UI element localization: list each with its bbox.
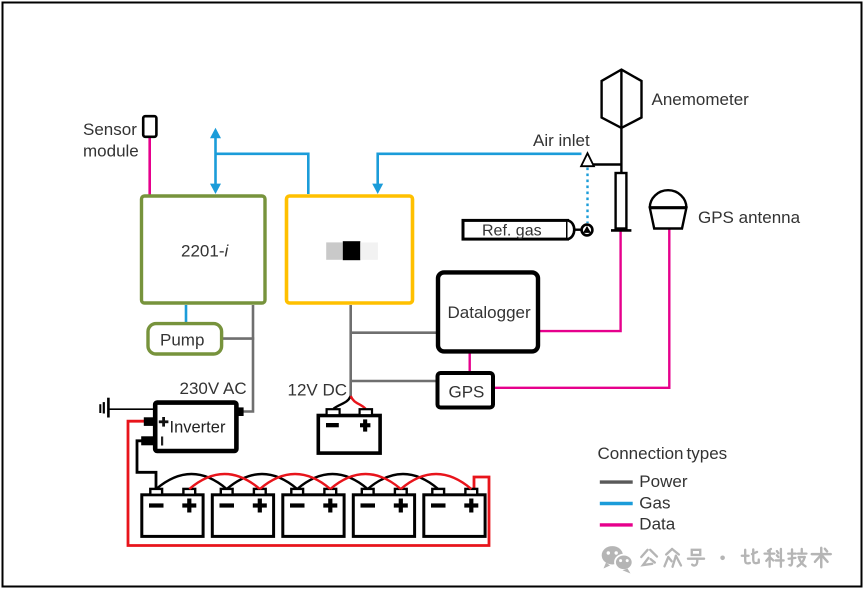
wire: blue gas line from air inlet to yellow box top with arrow <box>372 154 581 194</box>
battery B3 <box>283 495 344 537</box>
svg-text:Inverter: Inverter <box>170 419 226 437</box>
wire: red arc B1+ to B2+ <box>189 474 259 489</box>
wire: magenta data from sensor module to 2201-i <box>148 137 151 195</box>
wire: red arc B2+ to B3+ <box>260 474 331 489</box>
analyzer 2201-i box <box>142 196 266 303</box>
glyph hao <box>688 550 704 566</box>
wire: gray power branch to GPS <box>351 380 436 383</box>
wire: red power inverter to battery bank bus <box>128 421 489 545</box>
svg-text:module: module <box>83 142 139 161</box>
svg-text:Anemometer: Anemometer <box>652 90 750 109</box>
wire: black arc B4- to B5- <box>368 474 439 489</box>
svg-text:Connectiontypes: Connectiontypes <box>598 444 728 463</box>
GPS box <box>438 373 494 408</box>
battery B5 <box>424 495 485 537</box>
ground symbol <box>100 398 154 418</box>
wire: black arc B2- to B3- <box>227 474 298 489</box>
battery B1 <box>142 495 203 537</box>
legend Data <box>600 523 633 526</box>
sensor module symbol <box>143 116 156 137</box>
wire: magenta data GPS right to GPS antenna <box>495 229 670 388</box>
wire: blue gas from 2201-i bottom to Pump <box>185 305 188 323</box>
wire: red curved 12V positive lead <box>351 396 366 409</box>
glyph shu <box>812 548 831 567</box>
glyph gong <box>641 550 657 565</box>
wire: blue gas line from double-arrow to yellow box top <box>216 154 309 194</box>
svg-text:Air inlet: Air inlet <box>533 131 590 150</box>
svg-text:GPS antenna: GPS antenna <box>698 208 801 227</box>
wire: black arc B1- to B2- <box>156 474 227 489</box>
svg-text:Sensor: Sensor <box>83 120 137 139</box>
inverter box <box>141 403 243 451</box>
mast base line <box>611 229 631 232</box>
wire: gray power pump to vertical bus <box>223 337 254 340</box>
wire: gray power vertical from 2201-i bottom to inverter right <box>243 305 253 412</box>
GPS antenna dome <box>650 190 687 228</box>
glyph ke <box>765 549 784 567</box>
wire: blue dotted gas from air inlet triangle to ref-gas valve <box>586 168 588 224</box>
wire: magenta data Datalogger bottom to GPS top <box>469 353 471 372</box>
svg-text:Gas: Gas <box>639 493 670 512</box>
svg-text:12V DC: 12V DC <box>288 381 348 400</box>
wire: gray power branch to Datalogger <box>351 331 437 334</box>
battery B2 <box>212 495 273 537</box>
watermark text 公众号 · 比科技术 (drawn glyphs) <box>641 548 830 567</box>
wire: blue gas double-arrow into 2201-i top <box>210 128 221 194</box>
glyph bi <box>742 549 759 563</box>
battery 12V <box>318 409 380 453</box>
battery bank: 5 lead-acid batteries <box>142 489 485 536</box>
wire: black arc B3- to B4- <box>297 474 368 489</box>
svg-text:Datalogger: Datalogger <box>448 303 532 322</box>
datalogger box <box>438 272 538 351</box>
air inlet junction wire <box>590 163 621 165</box>
svg-text:230V AC: 230V AC <box>180 379 247 398</box>
wire: gray power vertical from yellow box bottom to 12V junction <box>349 305 352 397</box>
watermark wechat icon <box>602 546 633 573</box>
air inlet triangle <box>581 153 594 166</box>
svg-text:2201-i: 2201-i <box>181 242 229 261</box>
glyph ji <box>788 549 806 566</box>
svg-text:Power: Power <box>639 472 688 491</box>
middle dot <box>720 556 725 561</box>
svg-text:Ref. gas: Ref. gas <box>482 223 542 240</box>
wire: red arc B3+ to B4+ <box>330 474 401 489</box>
anemometer pole <box>620 70 622 174</box>
anemometer hexagon <box>602 70 642 128</box>
legend Gas <box>600 502 633 505</box>
wire: magenta data Datalogger right to anemometer mast <box>540 231 621 331</box>
glyph zhong <box>664 549 681 567</box>
wire: black curved 12V negative lead <box>334 396 351 409</box>
legend Power <box>600 480 633 483</box>
svg-text:GPS: GPS <box>449 383 485 402</box>
wire: red arc B4+ to B5+ <box>401 474 472 489</box>
svg-text:Pump: Pump <box>160 331 204 350</box>
battery B4 <box>353 495 414 537</box>
wire: black power inverter to battery 1 minus <box>137 441 156 490</box>
pump box <box>148 324 222 354</box>
yellow analyzer box with blurred logo <box>287 196 413 303</box>
svg-text:Data: Data <box>639 515 675 534</box>
ref-gas cylinder <box>463 220 592 239</box>
anemometer mast <box>616 173 627 229</box>
